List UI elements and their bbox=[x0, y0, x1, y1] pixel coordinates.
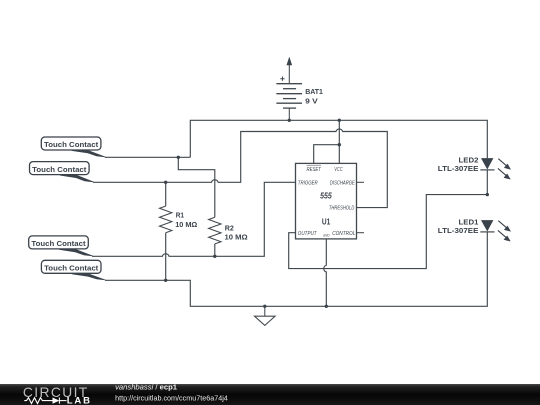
svg-text:LTL-307EE: LTL-307EE bbox=[438, 226, 479, 235]
wire IC GND pin bbox=[324, 239, 326, 306]
junction R1 top bbox=[164, 181, 167, 184]
svg-text:http://circuitlab.com/ccmu7te6: http://circuitlab.com/ccmu7te6a74j4 bbox=[115, 393, 228, 402]
touch contact TC3 bbox=[29, 236, 95, 257]
junction TC1 node bbox=[177, 156, 180, 159]
wire RESET bbox=[314, 145, 340, 164]
svg-text:BAT1: BAT1 bbox=[305, 87, 323, 96]
svg-text:Touch Contact: Touch Contact bbox=[32, 165, 87, 174]
svg-text:vanshbassi / ecp1: vanshbassi / ecp1 bbox=[115, 383, 178, 392]
wire OUTPUT net bbox=[289, 195, 488, 269]
junction VCC RESET bbox=[338, 143, 341, 146]
svg-text:9 V: 9 V bbox=[305, 97, 318, 106]
wire R2 bottom lead bbox=[214, 244, 216, 256]
svg-text:DISCHARGE: DISCHARGE bbox=[330, 180, 355, 186]
wire R1 bottom lead bbox=[165, 233, 167, 280]
svg-text:R2: R2 bbox=[225, 223, 234, 232]
touch contact TC1 bbox=[41, 137, 107, 158]
ground bbox=[255, 306, 276, 325]
svg-text:LAB: LAB bbox=[67, 396, 92, 405]
svg-text:U1: U1 bbox=[322, 218, 331, 227]
junction VCC rail bbox=[338, 119, 341, 122]
wire LED2 cathode lead bbox=[486, 170, 488, 195]
touch contact TC2 bbox=[30, 162, 96, 183]
wire TC3 R2 TRIGGER net bbox=[92, 182, 296, 256]
footer bar bbox=[0, 383, 540, 405]
svg-text:VCC: VCC bbox=[334, 167, 342, 173]
wire R1 top lead bbox=[165, 182, 167, 206]
svg-text:GND: GND bbox=[323, 233, 330, 237]
touch contact TC4 bbox=[41, 260, 107, 280]
svg-text:Touch Contact: Touch Contact bbox=[31, 239, 86, 248]
svg-text:LED1: LED1 bbox=[459, 217, 479, 226]
pin stub CONTROL bbox=[357, 232, 365, 234]
svg-text:10 MΩ: 10 MΩ bbox=[175, 220, 197, 229]
svg-text:RESET: RESET bbox=[307, 167, 322, 173]
junction R2 bottom bbox=[213, 255, 216, 258]
LED LED2 bbox=[438, 155, 511, 179]
power flag arrow bbox=[287, 57, 293, 83]
wire TC1 to rail bbox=[105, 156, 191, 158]
logo resistor diode icon bbox=[24, 398, 66, 404]
svg-text:Touch Contact: Touch Contact bbox=[44, 140, 99, 149]
svg-text:THRESHOLD: THRESHOLD bbox=[329, 206, 355, 212]
junction ground bbox=[263, 305, 266, 308]
wire V+ top rail bbox=[190, 120, 487, 158]
junction battery bottom bbox=[288, 119, 291, 122]
svg-text:TRIGGER: TRIGGER bbox=[298, 180, 318, 186]
pin stub DISCHARGE bbox=[357, 181, 365, 183]
svg-text:555: 555 bbox=[320, 191, 332, 200]
svg-text:OUTPUT: OUTPUT bbox=[298, 231, 318, 237]
svg-text:LTL-307EE: LTL-307EE bbox=[438, 164, 479, 173]
wire ground net TC4 bottom rail bbox=[105, 232, 487, 306]
svg-text:Touch Contact: Touch Contact bbox=[44, 264, 99, 273]
svg-text:CONTROL: CONTROL bbox=[332, 231, 355, 237]
battery BAT1 bbox=[276, 77, 302, 121]
junction IC GND bbox=[325, 305, 328, 308]
junction LED node bbox=[486, 193, 489, 196]
wire VCC bbox=[338, 120, 340, 163]
LED LED1 bbox=[438, 217, 511, 241]
IC U1 555 bbox=[296, 163, 365, 239]
wire TC1 node to R2 top bbox=[178, 157, 215, 217]
svg-text:10 MΩ: 10 MΩ bbox=[225, 233, 248, 242]
svg-text:R1: R1 bbox=[176, 211, 184, 220]
resistor R2 bbox=[209, 217, 221, 244]
junction R1 bottom bbox=[164, 279, 167, 282]
wire TC2 R1 THRESHOLD net bbox=[93, 129, 387, 208]
svg-text:LED2: LED2 bbox=[459, 155, 479, 164]
resistor R1 bbox=[160, 206, 172, 233]
